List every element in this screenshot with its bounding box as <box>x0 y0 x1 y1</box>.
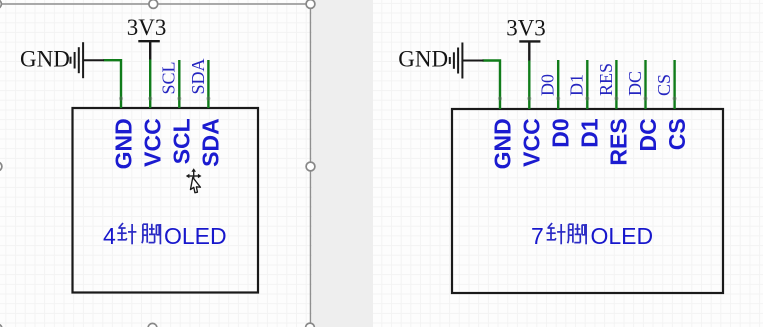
selection handle bottom-right <box>306 323 315 327</box>
ground flag GND (left) <box>20 42 104 78</box>
wire + pin GND (left chip pin 1) <box>104 60 122 108</box>
wire + pin VCC (right) <box>528 60 530 109</box>
svg-text:7: 7 <box>531 223 544 249</box>
wire SCL <box>178 60 180 108</box>
svg-text:DC: DC <box>635 118 661 151</box>
svg-text:3V3: 3V3 <box>127 15 167 40</box>
pin end dots (left chip) <box>119 96 211 100</box>
svg-text:SDA: SDA <box>188 58 208 94</box>
svg-text:GND: GND <box>110 118 136 169</box>
cursor: move cross <box>186 168 202 183</box>
wire + pin VCC (left chip pin 2) <box>149 59 151 108</box>
selection handle top-left <box>0 0 315 327</box>
svg-text:SDA: SDA <box>198 118 224 167</box>
selection handle top-mid <box>149 0 158 8</box>
glyph 脚 <box>142 224 161 245</box>
selection handle bottom-left <box>0 324 2 327</box>
svg-text:DC: DC <box>625 71 645 96</box>
wire D1 <box>586 60 588 109</box>
wire SDA <box>207 60 209 108</box>
selection handle bottom-mid <box>148 323 157 327</box>
selection right edge <box>310 4 312 327</box>
selection top edge <box>0 3 311 5</box>
svg-text:OLED: OLED <box>164 223 227 249</box>
svg-text:CS: CS <box>654 74 674 96</box>
svg-text:OLED: OLED <box>591 223 654 249</box>
chip U1 body (4-pin OLED) <box>73 108 259 293</box>
selection handle top-right <box>306 0 315 8</box>
svg-text:GND: GND <box>398 47 448 72</box>
glyph 脚 (right) <box>568 224 587 245</box>
wire RES <box>615 60 617 109</box>
svg-text:VCC: VCC <box>519 118 545 167</box>
svg-text:3V3: 3V3 <box>506 16 546 41</box>
left schematic canvas background <box>0 0 312 327</box>
selection handle mid-right <box>306 162 315 171</box>
wire D0 <box>557 60 559 109</box>
svg-text:4: 4 <box>103 223 116 249</box>
svg-text:D0: D0 <box>548 118 574 147</box>
power flag 3V3 (left) <box>127 15 167 60</box>
wire DC <box>644 60 646 109</box>
svg-text:CS: CS <box>664 118 690 150</box>
selection handle mid-left <box>0 162 2 171</box>
svg-text:D0: D0 <box>538 74 558 96</box>
glyph 针 <box>117 223 136 244</box>
chip label: 4针脚OLED <box>103 223 227 249</box>
ground flag GND (right) <box>398 43 483 79</box>
cursor: pointer arrow <box>190 177 202 193</box>
gray divider strip <box>312 0 374 327</box>
right schematic canvas background <box>373 0 763 327</box>
pin end dots (right chip) <box>498 96 677 100</box>
svg-text:D1: D1 <box>577 118 603 148</box>
glyph 针 (right) <box>546 223 565 244</box>
svg-text:RES: RES <box>596 63 616 96</box>
svg-text:RES: RES <box>606 118 632 165</box>
wire + pin GND (right) <box>483 61 501 110</box>
wire CS <box>673 60 675 109</box>
chip label: 7针脚OLED <box>531 223 653 249</box>
power flag 3V3 (right) <box>506 16 546 61</box>
svg-text:SCL: SCL <box>169 118 195 164</box>
svg-text:D1: D1 <box>567 74 587 96</box>
svg-text:GND: GND <box>20 47 70 72</box>
svg-text:SCL: SCL <box>159 61 179 94</box>
svg-text:VCC: VCC <box>140 118 166 167</box>
svg-text:GND: GND <box>489 118 515 169</box>
chip U2 body (7-pin OLED) <box>452 109 723 293</box>
